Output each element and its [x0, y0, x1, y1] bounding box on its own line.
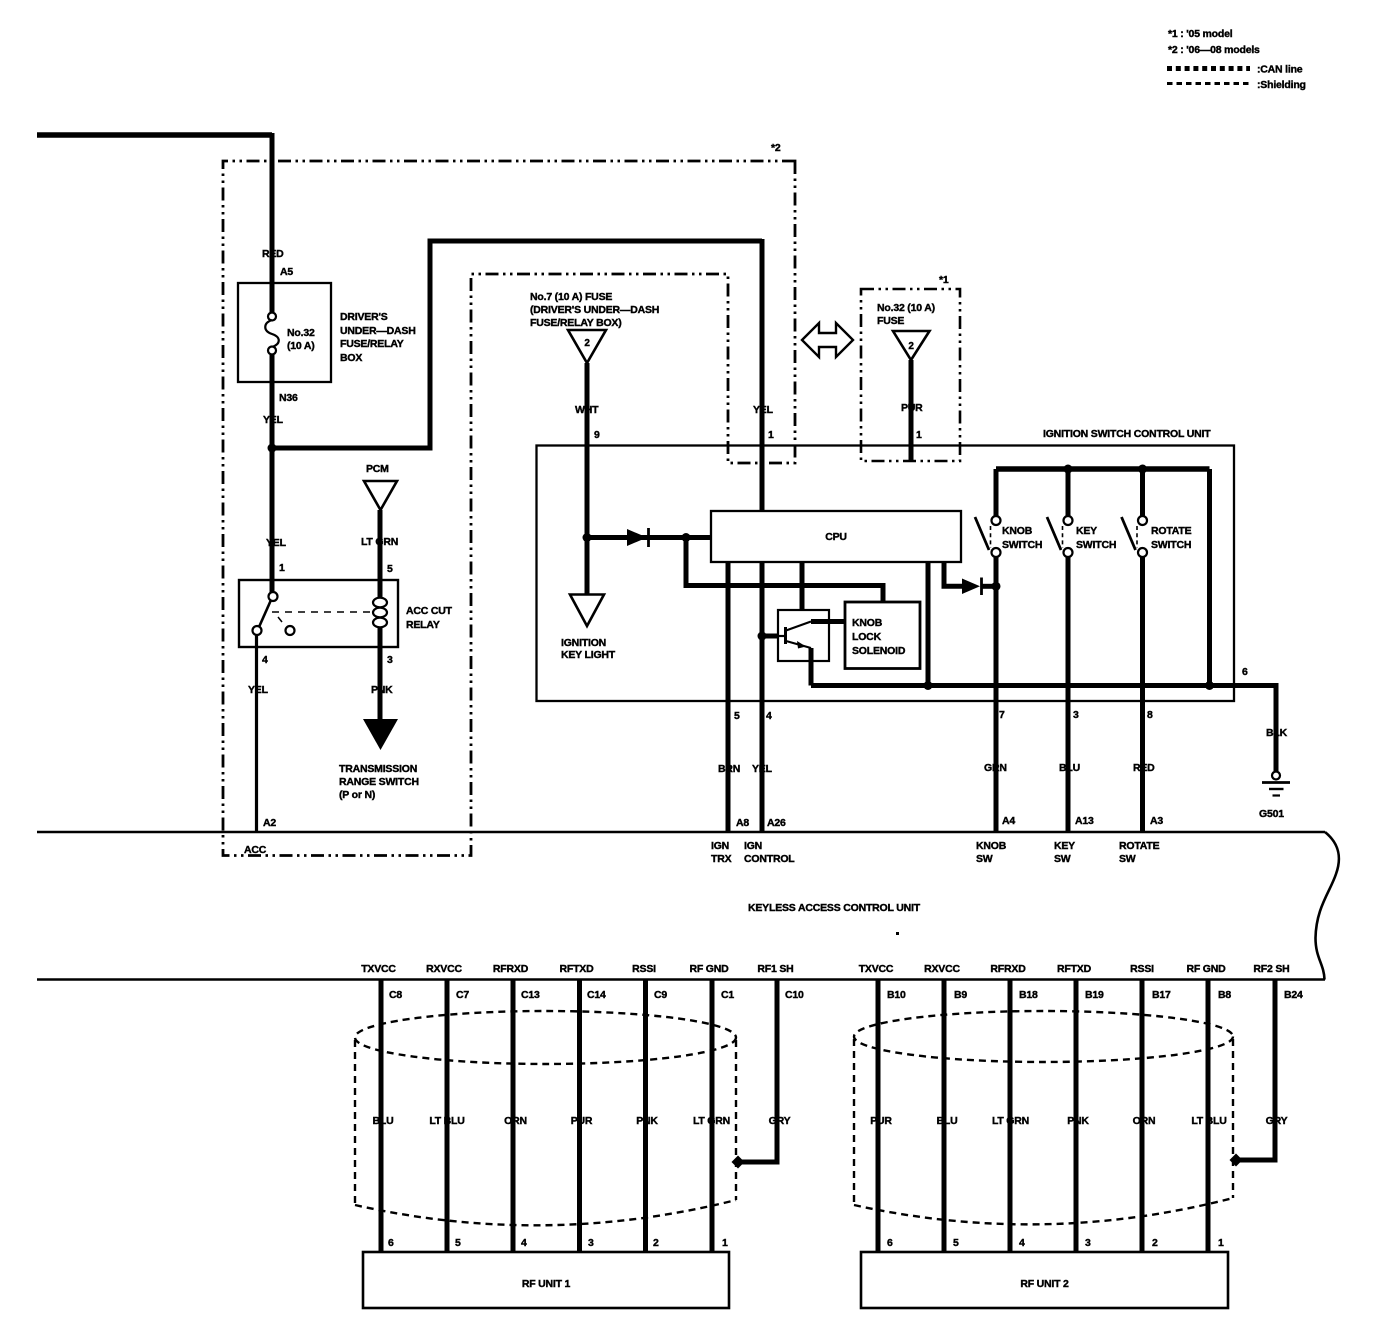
svg-text:4: 4 — [766, 710, 772, 722]
svg-text:RF GND: RF GND — [689, 963, 729, 975]
svg-text:YEL: YEL — [263, 414, 284, 426]
svg-text:4: 4 — [1019, 1237, 1025, 1249]
svg-text:LT GRN: LT GRN — [992, 1115, 1029, 1127]
svg-text:6: 6 — [887, 1237, 893, 1249]
svg-text:1: 1 — [768, 429, 774, 441]
svg-text:ACC: ACC — [244, 844, 267, 856]
svg-text:C9: C9 — [654, 989, 667, 1001]
svg-text:B8: B8 — [1218, 989, 1231, 1001]
svg-text:9: 9 — [594, 429, 600, 441]
svg-text:C14: C14 — [587, 989, 606, 1001]
svg-text:4: 4 — [262, 654, 268, 666]
svg-text:A8: A8 — [736, 817, 749, 829]
svg-text:(P or N): (P or N) — [339, 789, 375, 801]
svg-text:2: 2 — [653, 1237, 659, 1249]
svg-text:YEL: YEL — [266, 537, 287, 549]
svg-text:3: 3 — [1073, 709, 1079, 721]
svg-text:RSSI: RSSI — [1130, 963, 1154, 975]
svg-text:PUR: PUR — [870, 1115, 892, 1127]
svg-text:A26: A26 — [767, 817, 786, 829]
svg-text:FUSE/RELAY: FUSE/RELAY — [340, 338, 404, 350]
svg-text:5: 5 — [455, 1237, 461, 1249]
svg-text:5: 5 — [734, 710, 740, 722]
svg-text:RF2 SH: RF2 SH — [1253, 963, 1289, 975]
svg-text:1: 1 — [722, 1237, 728, 1249]
svg-text:C8: C8 — [389, 989, 402, 1001]
svg-text:DRIVER'S: DRIVER'S — [340, 311, 388, 323]
svg-text:TXVCC: TXVCC — [859, 963, 894, 975]
svg-text:RF1 SH: RF1 SH — [757, 963, 793, 975]
svg-text:RED: RED — [1133, 762, 1155, 774]
svg-text:RFTXD: RFTXD — [560, 963, 595, 975]
svg-text:2: 2 — [584, 338, 590, 349]
svg-text:CPU: CPU — [825, 531, 847, 543]
svg-text:RFRXD: RFRXD — [493, 963, 529, 975]
svg-text:5: 5 — [953, 1237, 959, 1249]
svg-text:RANGE SWITCH: RANGE SWITCH — [339, 776, 419, 788]
svg-text:TXVCC: TXVCC — [361, 963, 396, 975]
svg-text:No.32: No.32 — [287, 327, 315, 339]
svg-text:B17: B17 — [1152, 989, 1171, 1001]
svg-text:PCM: PCM — [366, 463, 389, 475]
svg-text:PNK: PNK — [636, 1115, 658, 1127]
svg-text:KEYLESS ACCESS CONTROL UNIT: KEYLESS ACCESS CONTROL UNIT — [748, 902, 921, 914]
svg-text:(DRIVER'S UNDER—DASH: (DRIVER'S UNDER—DASH — [530, 304, 659, 316]
svg-text:PUR: PUR — [571, 1115, 593, 1127]
svg-text:C1: C1 — [721, 989, 734, 1001]
svg-text:PUR: PUR — [901, 402, 923, 414]
svg-text:IGN: IGN — [711, 840, 729, 852]
svg-text:ORN: ORN — [1133, 1115, 1156, 1127]
svg-text:WHT: WHT — [575, 404, 599, 416]
svg-text:B9: B9 — [954, 989, 967, 1001]
svg-text:*1 : '05 model: *1 : '05 model — [1168, 28, 1233, 40]
svg-text:No.32 (10 A): No.32 (10 A) — [877, 302, 935, 314]
svg-text:PNK: PNK — [371, 684, 393, 696]
svg-text:No.7 (10 A) FUSE: No.7 (10 A) FUSE — [530, 291, 612, 303]
svg-text:C13: C13 — [521, 989, 540, 1001]
svg-text:A4: A4 — [1002, 815, 1015, 827]
svg-text:LT GRN: LT GRN — [693, 1115, 730, 1127]
svg-text:C10: C10 — [785, 989, 804, 1001]
svg-text:*1: *1 — [939, 274, 949, 286]
svg-text:RELAY: RELAY — [406, 619, 440, 631]
svg-text:SW: SW — [1054, 853, 1071, 865]
svg-text:4: 4 — [521, 1237, 527, 1249]
svg-text:PNK: PNK — [1067, 1115, 1089, 1127]
svg-text:YEL: YEL — [752, 763, 773, 775]
svg-text:6: 6 — [1242, 666, 1248, 678]
svg-text:B24: B24 — [1284, 989, 1303, 1001]
svg-text:7: 7 — [999, 709, 1005, 721]
svg-text:SW: SW — [976, 853, 993, 865]
svg-text:GRN: GRN — [984, 762, 1007, 774]
svg-text:ORN: ORN — [504, 1115, 527, 1127]
svg-text:BOX: BOX — [340, 352, 362, 364]
svg-text::Shielding: :Shielding — [1257, 79, 1306, 91]
svg-text:SWITCH: SWITCH — [1151, 539, 1191, 551]
svg-text:ROTATE: ROTATE — [1151, 525, 1192, 537]
svg-text:TRANSMISSION: TRANSMISSION — [339, 763, 417, 775]
svg-text:KNOB: KNOB — [852, 617, 883, 629]
svg-text:KEY: KEY — [1076, 525, 1097, 537]
svg-text:1: 1 — [916, 429, 922, 441]
svg-text:B10: B10 — [887, 989, 906, 1001]
svg-text:*2: *2 — [771, 142, 781, 154]
svg-text:YEL: YEL — [248, 684, 269, 696]
svg-text:(10 A): (10 A) — [287, 340, 315, 352]
svg-text:*2 : '06—08 models: *2 : '06—08 models — [1168, 44, 1260, 56]
svg-text:YEL: YEL — [753, 404, 774, 416]
svg-text:KNOB: KNOB — [1002, 525, 1033, 537]
svg-text:TRX: TRX — [711, 853, 732, 865]
svg-text:ROTATE: ROTATE — [1119, 840, 1160, 852]
svg-text:BLK: BLK — [1266, 727, 1288, 739]
svg-text:SWITCH: SWITCH — [1076, 539, 1116, 551]
svg-text:GRY: GRY — [769, 1115, 791, 1127]
svg-text:BLU: BLU — [937, 1115, 958, 1127]
svg-text:IGN: IGN — [744, 840, 762, 852]
svg-text:BRN: BRN — [718, 763, 740, 775]
svg-text:KEY: KEY — [1054, 840, 1075, 852]
svg-text:RED: RED — [262, 248, 284, 260]
svg-text:RFTXD: RFTXD — [1057, 963, 1092, 975]
svg-text:A13: A13 — [1075, 815, 1094, 827]
svg-text:BLU: BLU — [1059, 762, 1080, 774]
svg-text:UNDER—DASH: UNDER—DASH — [340, 325, 416, 337]
svg-text::CAN line: :CAN line — [1257, 64, 1303, 76]
svg-text:B18: B18 — [1019, 989, 1038, 1001]
svg-text:1: 1 — [1218, 1237, 1224, 1249]
svg-text:B19: B19 — [1085, 989, 1104, 1001]
svg-text:6: 6 — [388, 1237, 394, 1249]
svg-text:2: 2 — [908, 341, 914, 352]
svg-text:LT BLU: LT BLU — [429, 1115, 464, 1127]
svg-text:RXVCC: RXVCC — [426, 963, 462, 975]
svg-text:ACC CUT: ACC CUT — [406, 605, 453, 617]
svg-text:GRY: GRY — [1266, 1115, 1288, 1127]
svg-text:8: 8 — [1147, 709, 1153, 721]
svg-text:IGNITION: IGNITION — [561, 637, 606, 649]
svg-text:SW: SW — [1119, 853, 1136, 865]
svg-text:G501: G501 — [1259, 808, 1284, 820]
svg-text:A3: A3 — [1150, 815, 1163, 827]
svg-text:RSSI: RSSI — [632, 963, 656, 975]
svg-text:3: 3 — [588, 1237, 594, 1249]
svg-text:RF UNIT 2: RF UNIT 2 — [1020, 1278, 1069, 1290]
svg-text:FUSE: FUSE — [877, 315, 904, 327]
svg-text:3: 3 — [387, 654, 393, 666]
svg-text:KNOB: KNOB — [976, 840, 1007, 852]
svg-text:IGNITION SWITCH CONTROL UNIT: IGNITION SWITCH CONTROL UNIT — [1043, 428, 1211, 440]
svg-text:RXVCC: RXVCC — [924, 963, 960, 975]
svg-text:3: 3 — [1085, 1237, 1091, 1249]
svg-text:RF GND: RF GND — [1186, 963, 1226, 975]
svg-text:LT GRN: LT GRN — [361, 536, 398, 548]
svg-text:C7: C7 — [456, 989, 469, 1001]
svg-text:KEY LIGHT: KEY LIGHT — [561, 649, 616, 661]
svg-text:A5: A5 — [280, 266, 293, 278]
svg-text:FUSE/RELAY BOX): FUSE/RELAY BOX) — [530, 317, 622, 329]
svg-text:N36: N36 — [279, 392, 298, 404]
svg-text:A2: A2 — [263, 817, 276, 829]
svg-text:LOCK: LOCK — [852, 631, 882, 643]
svg-text:5: 5 — [387, 563, 393, 575]
svg-text:LT BLU: LT BLU — [1191, 1115, 1226, 1127]
svg-text:2: 2 — [1152, 1237, 1158, 1249]
svg-text:SOLENOID: SOLENOID — [852, 645, 906, 657]
svg-text:SWITCH: SWITCH — [1002, 539, 1042, 551]
svg-text:CONTROL: CONTROL — [744, 853, 795, 865]
svg-text:BLU: BLU — [373, 1115, 394, 1127]
svg-text:1: 1 — [279, 562, 285, 574]
svg-text:RF UNIT 1: RF UNIT 1 — [522, 1278, 571, 1290]
svg-text:RFRXD: RFRXD — [990, 963, 1026, 975]
